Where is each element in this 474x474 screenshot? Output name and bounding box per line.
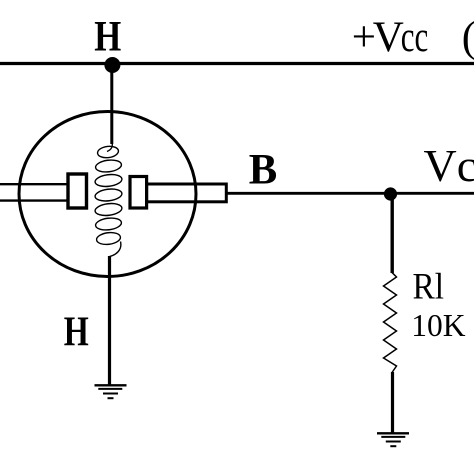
svg-text:Rl: Rl	[413, 266, 445, 307]
svg-text:Vc: Vc	[424, 140, 474, 191]
heater coil	[94, 140, 122, 257]
wire: resistor top lead	[391, 194, 394, 273]
electrode right plate	[130, 177, 147, 209]
wire: +Vcc top rail	[0, 62, 474, 65]
wire: heater bottom lead	[108, 256, 111, 386]
svg-text:H: H	[64, 310, 89, 356]
resistor R1	[384, 273, 397, 373]
ground (heater)	[95, 385, 127, 398]
electrode left lead (tube)	[0, 184, 68, 200]
svg-text:H: H	[94, 13, 121, 60]
wire: resistor bottom lead	[391, 372, 394, 434]
sensor envelope (circle)	[19, 112, 196, 277]
node: output junction dot	[384, 187, 397, 200]
svg-text:10K: 10K	[411, 308, 466, 343]
wire: B output wire	[226, 192, 474, 195]
ground (resistor)	[377, 433, 409, 446]
electrode right lead (tube)	[147, 184, 227, 202]
node: heater/rail junction dot	[104, 57, 120, 73]
wire: heater top lead	[110, 63, 113, 144]
svg-text:B: B	[249, 147, 277, 194]
electrode left plate	[68, 174, 87, 208]
